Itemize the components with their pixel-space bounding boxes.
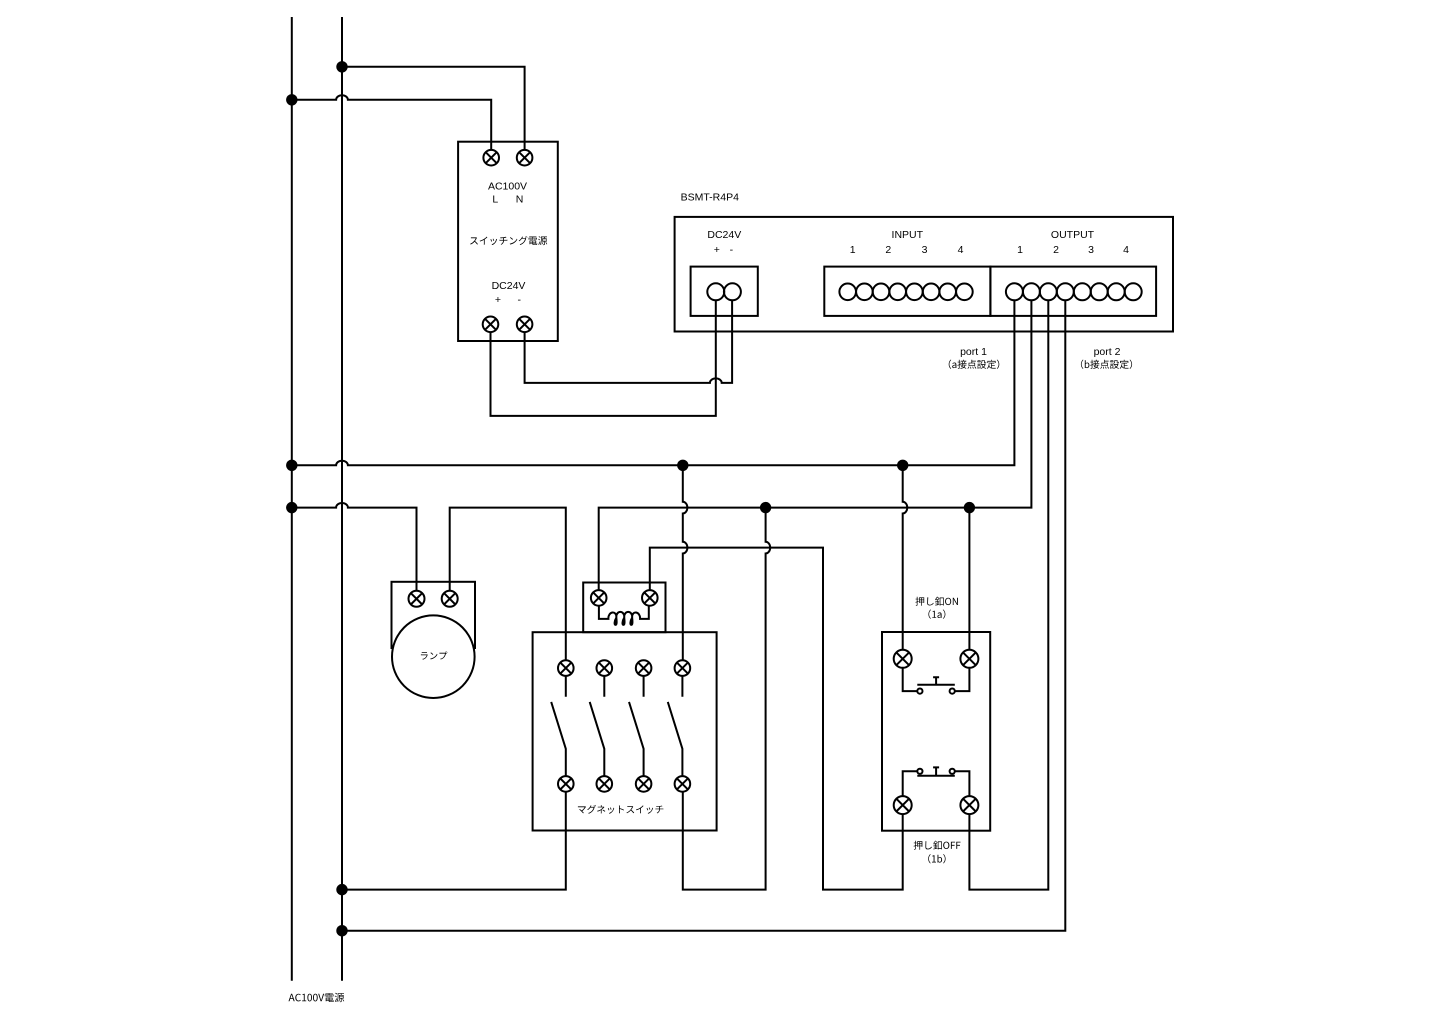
push ON actuator stem — [933, 677, 939, 685]
label DC24V (PSU) — [492, 280, 526, 292]
svg-text:4: 4 — [958, 244, 964, 256]
PSU terminal DC24V + — [483, 317, 499, 333]
MC contact 3 top terminal — [636, 660, 652, 676]
label DC24V (BSMT) — [707, 229, 741, 241]
pin label - (BSMT) — [730, 244, 734, 256]
svg-text:DC24V: DC24V — [707, 229, 741, 241]
pin label OUTPUT 1 — [1017, 244, 1023, 256]
PSU terminal DC24V - — [517, 317, 533, 333]
pin label INPUT 3 — [922, 244, 928, 256]
wire bus N to OUTPUT4 — [342, 300, 1065, 930]
BSMT INPUT terminals 1-8 — [839, 284, 972, 301]
svg-text:2: 2 — [885, 244, 891, 256]
MC contact 4 top terminal — [675, 660, 691, 676]
wire bus L to PSU terminal L (hop over bus N) — [292, 95, 491, 150]
MC contact 2 switch blade — [590, 676, 605, 776]
svg-text:L: L — [492, 194, 498, 206]
pin label INPUT 2 — [885, 244, 891, 256]
lamp terminal right — [442, 591, 458, 607]
svg-text:port 2: port 2 — [1094, 346, 1121, 358]
wire net C drop to MC contact4 bottom (hop over net D) — [683, 508, 770, 890]
wire net A drop to push ON left (hop over net C) — [903, 465, 908, 650]
push OFF bridge bar — [917, 775, 955, 777]
label AC100V電源 — [289, 993, 345, 1002]
push ON contact right — [950, 689, 955, 694]
push OFF lead right — [955, 771, 970, 796]
label 押し釦ON — [916, 597, 958, 606]
MC contact 2 bottom terminal — [597, 776, 613, 792]
svg-text:INPUT: INPUT — [892, 229, 924, 241]
push ON lead right — [955, 668, 970, 691]
svg-text:3: 3 — [922, 244, 928, 256]
pin label + (BSMT) — [714, 244, 720, 256]
magnet switch マグネットスイッチ box — [533, 632, 717, 830]
svg-text:-: - — [518, 294, 522, 306]
push ON bridge bar — [917, 684, 955, 686]
MC contact 1 switch blade — [551, 676, 566, 776]
wire net A: bus L / push ON / MC contact4 top / OUTPUT1 (hop over bus N) — [292, 300, 1015, 465]
lamp globe circle — [392, 615, 475, 698]
wire MC contact1 bottom to bus N — [342, 792, 566, 890]
label AC100V — [488, 181, 527, 193]
BSMT DC24V terminal + — [707, 283, 724, 300]
wire net C: MC coil left / push ON right / OUTPUT2 — [599, 300, 1032, 590]
BSMT DC24V terminal block box — [691, 267, 758, 316]
label (1b) — [928, 854, 945, 863]
junction bus L top — [286, 94, 297, 105]
svg-text:N: N — [516, 194, 524, 206]
MC contact 1 bottom terminal — [558, 776, 574, 792]
junction net A / contact4 drop — [677, 460, 688, 471]
push OFF terminal right — [960, 796, 978, 814]
label b接点設定 — [1081, 360, 1132, 369]
label スイッチング電源 — [470, 236, 547, 245]
svg-text:DC24V: DC24V — [492, 280, 526, 292]
junction bus N bottom 2 — [336, 925, 347, 936]
BSMT OUTPUT terminal block box — [990, 267, 1156, 316]
lamp terminal left — [409, 591, 425, 607]
svg-text:3: 3 — [1088, 244, 1094, 256]
MC contact 2 top terminal — [597, 660, 613, 676]
label ランプ — [421, 652, 447, 660]
MC coil terminal right — [642, 590, 658, 606]
pin label OUTPUT 2 — [1053, 244, 1059, 256]
svg-text:1: 1 — [850, 244, 856, 256]
wire PSU + to BSMT DC24V + — [491, 300, 716, 416]
label port 2 — [1094, 346, 1121, 358]
MC contact 3 bottom terminal — [636, 776, 652, 792]
BSMT OUTPUT terminals 1-8 — [1006, 283, 1142, 300]
MC contact 1 top terminal — [558, 660, 574, 676]
push button box — [882, 632, 990, 831]
wire push OFF right to OUTPUT3 — [969, 300, 1048, 889]
bus line N (AC100V vertical 2) — [341, 17, 343, 981]
junction net B at bus L — [286, 502, 297, 513]
pin label INPUT 4 — [958, 244, 964, 256]
pin label L — [492, 194, 498, 206]
svg-text:OUTPUT: OUTPUT — [1051, 229, 1095, 241]
svg-text:+: + — [714, 244, 720, 256]
BSMT DC24V terminal - — [724, 283, 741, 300]
MC coil terminal left — [591, 590, 607, 606]
pin label OUTPUT 3 — [1088, 244, 1094, 256]
MC contact 3 switch blade — [629, 676, 644, 776]
label OUTPUT — [1051, 229, 1095, 241]
pin label + (PSU) — [495, 294, 501, 306]
wire lamp right to MC contact1 top — [450, 508, 566, 661]
push ON terminal right — [960, 650, 978, 668]
svg-text:BSMT-R4P4: BSMT-R4P4 — [681, 192, 740, 204]
push OFF lead left — [903, 771, 918, 796]
pin label OUTPUT 4 — [1123, 244, 1129, 256]
label BSMT-R4P4 — [681, 192, 740, 204]
switching power supply スイッチング電源 box — [458, 142, 558, 341]
pin label INPUT 1 — [850, 244, 856, 256]
PSU terminal L — [483, 150, 499, 166]
BSMT-R4P4 main box — [675, 217, 1173, 332]
svg-text:1: 1 — [1017, 244, 1023, 256]
junction bus N top — [336, 61, 347, 72]
wire PSU - to BSMT DC24V - (hop over + wire) — [525, 300, 733, 383]
label (1a) — [928, 610, 945, 619]
push ON contact left — [917, 689, 922, 694]
wire push ON right to net C — [968, 508, 970, 650]
wire net A drop to MC contact4 top (hops over nets C and D) — [683, 465, 688, 660]
MC contact 4 switch blade — [668, 676, 683, 776]
pin label - (PSU) — [518, 294, 522, 306]
wire bus N to PSU terminal N — [342, 67, 525, 150]
PSU terminal N — [517, 150, 533, 166]
MC contact 4 bottom terminal — [675, 776, 691, 792]
push OFF actuator stem — [933, 767, 939, 775]
push OFF terminal left — [894, 796, 912, 814]
label port 1 — [960, 346, 987, 358]
svg-text:-: - — [730, 244, 734, 256]
junction net A at bus L — [286, 460, 297, 471]
svg-text:2: 2 — [1053, 244, 1059, 256]
svg-text:AC100V: AC100V — [488, 181, 527, 193]
label マグネットスイッチ — [578, 805, 664, 814]
junction net C / push ON right — [964, 502, 975, 513]
push ON terminal left — [894, 650, 912, 668]
junction net C / contact4 bottom drop — [760, 502, 771, 513]
push OFF contact left — [917, 769, 922, 774]
junction net A / push ON drop — [897, 460, 908, 471]
push OFF contact right — [950, 769, 955, 774]
junction bus N bottom 1 — [336, 884, 347, 895]
svg-text:4: 4 — [1123, 244, 1129, 256]
push ON lead left — [903, 668, 918, 691]
pin label N — [516, 194, 524, 206]
svg-text:port 1: port 1 — [960, 346, 987, 358]
wire net D: MC coil right to push OFF left — [650, 548, 903, 890]
svg-text:+: + — [495, 294, 501, 306]
lamp ランプ body box — [392, 582, 476, 648]
label 押し釦OFF — [914, 841, 961, 850]
BSMT INPUT terminal block box — [824, 267, 990, 316]
MC coil box — [583, 583, 665, 633]
label INPUT — [892, 229, 924, 241]
bus line L (AC100V vertical 1) — [291, 17, 293, 981]
wire net B: bus L to lamp left (hop over bus N) — [292, 503, 417, 591]
MC coil inductor winding — [599, 606, 649, 625]
label a接点設定 — [949, 360, 1000, 369]
